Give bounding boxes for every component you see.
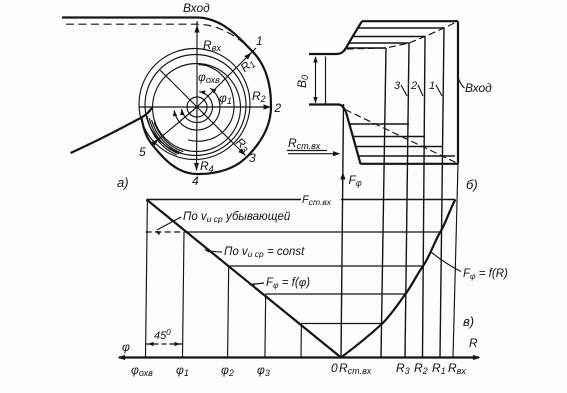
section bottom edge 2 bbox=[356, 146, 442, 148]
descending line F_phi = f(phi) bbox=[147, 200, 342, 358]
label F_st.vx bbox=[301, 192, 341, 205]
development circle turn 3 bbox=[139, 49, 250, 160]
radius ray R_vx (up, to inlet) bbox=[196, 21, 198, 107]
section inner top edge bbox=[346, 47, 386, 49]
level line at phi_2 height bbox=[229, 265, 424, 267]
casing tongue (tail curve) bbox=[71, 107, 153, 153]
phi gridline phi_1 bbox=[183, 232, 185, 358]
oblique top corner edges bbox=[347, 21, 458, 49]
svg-text:4: 4 bbox=[192, 174, 199, 188]
throat lower wall bbox=[309, 105, 346, 113]
F_st.vx top level line bbox=[147, 199, 456, 201]
level line at phi_3 height bbox=[266, 293, 406, 295]
section bottom edge 3 bbox=[353, 136, 425, 138]
svg-text:3: 3 bbox=[394, 80, 401, 92]
outer section bottom slant bbox=[346, 112, 361, 164]
level line at phi_1 height bbox=[184, 231, 440, 233]
section 2 top edge bbox=[353, 36, 425, 38]
svg-text:а): а) bbox=[117, 175, 129, 190]
innermost spiral turn arc bbox=[188, 65, 234, 142]
section tick 1 bbox=[250, 48, 257, 55]
outer section top edge bbox=[362, 20, 458, 22]
section bottom edge 4 bbox=[349, 123, 409, 125]
section 1 top edge bbox=[358, 27, 444, 29]
oblique bottom dashed diagonal bbox=[345, 110, 458, 164]
svg-text:2: 2 bbox=[410, 80, 417, 92]
radius ray R2 (horizontal right) with arrow bbox=[197, 106, 271, 108]
F_phi axis (from casing throat down to origin) bbox=[341, 104, 344, 358]
svg-text:Fφ = f(R): Fφ = f(R) bbox=[463, 268, 508, 281]
svg-text:Fφ = f(φ): Fφ = f(φ) bbox=[266, 277, 310, 290]
development circle turn 1 bbox=[153, 64, 241, 152]
spiral casing outer wall (a) bbox=[62, 18, 271, 175]
station line Vkhod down to R axis bbox=[453, 164, 458, 358]
outer section top slant bbox=[346, 21, 362, 48]
radius ray R3 (-45 deg) with arrow bbox=[197, 107, 245, 155]
radius ray 5 (220 deg) with arrow bbox=[159, 107, 197, 139]
construction ray 135 deg bbox=[160, 70, 197, 107]
B0 dimension line with arrows bbox=[315, 57, 317, 103]
left horizontal ray to tongue tip bbox=[139, 106, 197, 108]
svg-text:1: 1 bbox=[256, 34, 263, 48]
svg-text:0: 0 bbox=[331, 361, 338, 375]
outer section right edge (Vkhod) bbox=[457, 21, 459, 164]
45 degree dimension bbox=[146, 343, 183, 345]
radius ray R1 (45 deg) with arrow bbox=[197, 53, 251, 107]
small hub circle bbox=[187, 97, 207, 117]
angle arc phi_1 with arrows bbox=[174, 88, 220, 130]
radius ray R4 (down) with arrow bbox=[196, 107, 199, 171]
svg-text:б): б) bbox=[466, 177, 478, 192]
svg-text:3: 3 bbox=[249, 151, 256, 165]
R / phi horizontal axis bbox=[119, 356, 479, 358]
svg-text:2: 2 bbox=[274, 101, 282, 115]
section tick 5 bbox=[150, 142, 155, 147]
dashed extension at phi_1 level bbox=[146, 231, 184, 233]
station line 3 down to R axis bbox=[405, 43, 409, 358]
svg-text:1: 1 bbox=[429, 80, 435, 92]
outer section bottom edge bbox=[361, 163, 459, 165]
converging wall band near tongue bbox=[154, 122, 183, 152]
phi gridline phi_okhv bbox=[146, 200, 148, 358]
svg-text:По vи ср убывающей: По vи ср убывающей bbox=[183, 211, 291, 224]
station line 2 down to R axis bbox=[423, 37, 426, 358]
svg-text:R: R bbox=[469, 336, 478, 350]
phi gridline phi_3 bbox=[264, 294, 267, 358]
station line 4 down to R axis bbox=[381, 48, 386, 358]
rising curve F_phi = f(R) bbox=[341, 200, 455, 358]
throat station line bbox=[325, 57, 327, 104]
svg-text:По vи ср = const: По vи ср = const bbox=[224, 246, 305, 259]
svg-text:5: 5 bbox=[139, 145, 146, 159]
svg-text:φ: φ bbox=[122, 340, 130, 354]
svg-text:Вход: Вход bbox=[465, 81, 492, 95]
inlet duct inner wall (dashed) bbox=[66, 24, 250, 48]
svg-text:Вход: Вход bbox=[183, 1, 210, 15]
phi gridline phi_4 bbox=[300, 324, 302, 358]
phi gridline phi_2 bbox=[228, 266, 229, 358]
development circle turn 2 bbox=[145, 55, 246, 156]
angle arc phi_okhv with arrows bbox=[182, 92, 213, 123]
level line at phi_4 height bbox=[301, 323, 381, 325]
svg-text:в): в) bbox=[463, 314, 474, 329]
section 3 top edge bbox=[349, 42, 409, 44]
station line 1 down to R axis bbox=[440, 28, 444, 358]
section bottom edge 1 bbox=[358, 155, 455, 157]
throat upper wall bbox=[309, 48, 346, 54]
